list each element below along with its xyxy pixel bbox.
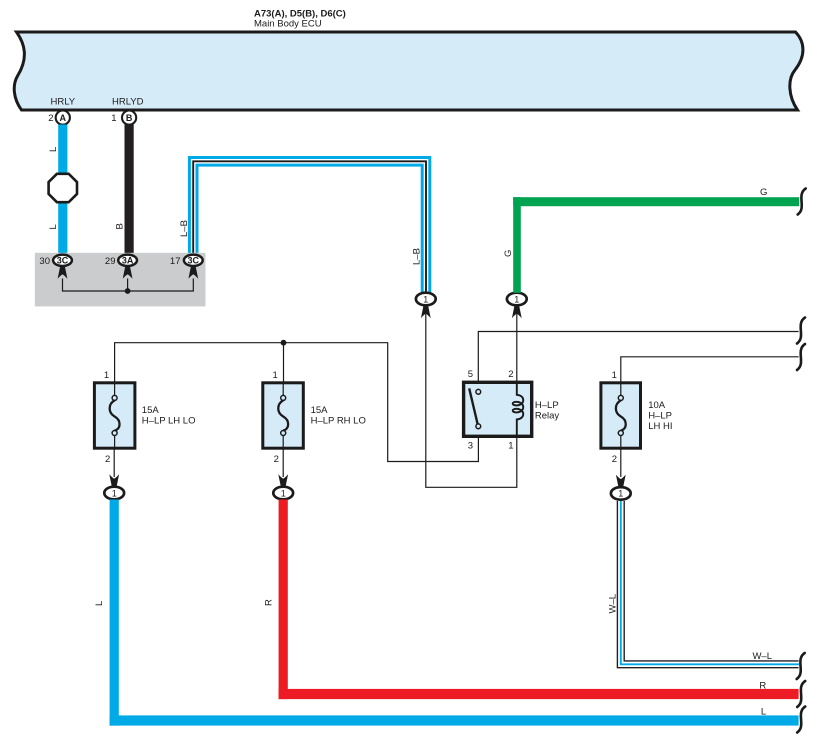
fuse F2 value label (311, 405, 366, 427)
svg-text:HRLY: HRLY (51, 96, 76, 107)
wire G green (513, 197, 799, 293)
svg-text:5: 5 (468, 369, 473, 380)
svg-text:1: 1 (112, 488, 117, 498)
svg-text:2: 2 (105, 454, 110, 465)
svg-text:A: A (60, 113, 67, 123)
connector 3C pin 17 (184, 255, 203, 266)
svg-text:H–LP: H–LP (648, 410, 672, 421)
connector junction 1 below F3 (611, 487, 631, 500)
connector junction 1 below F1 (104, 487, 124, 500)
arrow into junction 1 below F3 (616, 475, 626, 487)
svg-text:G: G (760, 187, 767, 198)
svg-text:L–B: L–B (412, 248, 423, 265)
svg-text:3: 3 (468, 441, 473, 452)
svg-text:L: L (48, 224, 59, 229)
fuse F1 value label (142, 405, 196, 427)
fuse F2 15A H-LP RH LO (263, 383, 304, 448)
wire B black vertical from pin B (125, 125, 134, 255)
svg-text:2: 2 (508, 369, 513, 380)
continuation squiggle thin wire 1 (797, 318, 805, 344)
ground bus wires (63, 279, 194, 292)
svg-text:Relay: Relay (535, 410, 560, 421)
svg-text:L: L (94, 601, 105, 606)
svg-text:L–B: L–B (179, 220, 190, 237)
svg-text:HRLYD: HRLYD (112, 96, 144, 107)
fuse F3 value label (648, 400, 672, 432)
svg-text:Main Body ECU: Main Body ECU (254, 19, 322, 30)
connector 3C pin 30 (53, 255, 72, 266)
ground shield block (35, 253, 206, 307)
svg-text:17: 17 (170, 256, 181, 267)
wire fuse F1 pin 2 down (113, 448, 115, 477)
svg-text:2: 2 (612, 454, 617, 465)
svg-text:15A: 15A (142, 405, 160, 416)
svg-text:1: 1 (508, 441, 513, 452)
svg-text:H–LP RH LO: H–LP RH LO (311, 416, 366, 427)
svg-text:1: 1 (281, 488, 286, 498)
arrow into 3C pin 17 (188, 267, 198, 279)
svg-text:B: B (115, 223, 126, 229)
svg-text:1: 1 (111, 113, 116, 124)
wire thin from junction 1 G to relay pin 2 (516, 312, 518, 382)
wire thin relay pin 5 to right (478, 332, 798, 383)
svg-text:W–L: W–L (608, 594, 619, 614)
wire fuse F2 pin 2 down (282, 448, 284, 477)
relay label H-LP Relay (535, 400, 560, 422)
connector junction 1 below F2 (273, 487, 293, 500)
svg-text:G: G (503, 250, 514, 257)
continuation squiggle L (797, 707, 805, 733)
svg-text:1: 1 (618, 489, 623, 499)
svg-text:2: 2 (274, 454, 279, 465)
svg-text:R: R (264, 599, 275, 606)
svg-text:1: 1 (104, 370, 109, 381)
connector pin B (122, 111, 136, 125)
relay coil (513, 382, 524, 436)
svg-text:1: 1 (612, 370, 617, 381)
svg-text:1: 1 (273, 370, 278, 381)
svg-text:3A: 3A (122, 256, 134, 266)
wire L-B blue/black from connector 17 to junction 1 (193, 161, 426, 292)
relay switch contact (469, 388, 480, 428)
fuse F3 10A H-LP LH HI (601, 383, 641, 448)
svg-text:29: 29 (105, 256, 116, 267)
continuation squiggle thin wire 2 (797, 344, 805, 370)
fuse F1 15A H-LP LH LO (94, 383, 134, 448)
connector junction 1 (G) (507, 293, 527, 306)
svg-text:L: L (48, 147, 59, 152)
wire L blue vertical from pin A (58, 125, 67, 255)
continuation squiggle G (798, 189, 806, 215)
svg-text:L: L (761, 706, 766, 717)
svg-text:3C: 3C (57, 256, 69, 266)
wire thin from junction 1 to relay pin 1 (426, 312, 517, 487)
wire thin supply rail to fuses and relay pin 3 (115, 343, 479, 462)
arrow into 3A pin 29 (123, 267, 133, 279)
svg-text:H–LP LH LO: H–LP LH LO (142, 416, 196, 427)
svg-text:3C: 3C (188, 256, 200, 266)
noise filter octagon (49, 174, 77, 202)
svg-text:1: 1 (423, 294, 428, 304)
arrow into 3C pin 30 (58, 267, 68, 279)
arrow into junction 1 (G) (512, 306, 522, 318)
wire R red run (279, 500, 799, 700)
svg-text:15A: 15A (311, 405, 329, 416)
wire thin fuse3 pin 1 to right (621, 357, 799, 383)
wire W-L white/blue run (621, 501, 800, 664)
arrow into junction 1 below F1 (109, 474, 119, 486)
svg-text:30: 30 (39, 256, 50, 267)
connector 3A pin 29 (118, 255, 137, 266)
svg-text:LH HI: LH HI (648, 421, 672, 432)
wire fuse F3 pin 2 down (620, 448, 622, 477)
svg-text:B: B (126, 113, 133, 123)
ECU block U1 Main Body ECU (14, 32, 803, 110)
junction dot ground bus (125, 288, 131, 294)
relay U2 H-LP Relay (464, 382, 532, 436)
svg-text:W–L: W–L (752, 651, 772, 662)
svg-text:1: 1 (514, 294, 519, 304)
connector junction 1 (L-B) (416, 293, 436, 306)
connector pin A (56, 111, 70, 125)
wire L blue bottom run (110, 500, 799, 726)
arrow into junction 1 below F2 (278, 474, 288, 486)
junction dot rail (281, 340, 287, 346)
continuation squiggle R (797, 681, 805, 707)
svg-text:2: 2 (48, 113, 53, 124)
continuation squiggle W-L (797, 653, 805, 679)
svg-text:H–LP: H–LP (535, 400, 559, 411)
svg-text:R: R (759, 681, 766, 692)
arrow into junction 1 (L-B) (421, 306, 431, 318)
